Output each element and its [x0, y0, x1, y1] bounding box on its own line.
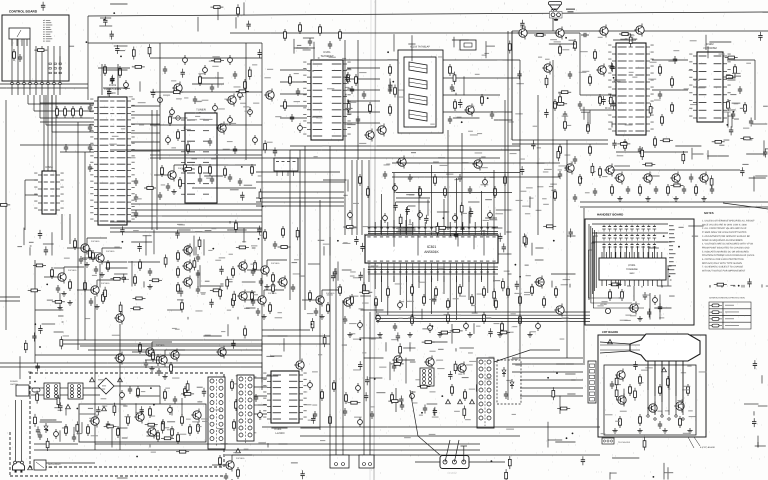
legend row line: [709, 321, 751, 323]
wire: [34, 260, 36, 363]
resistor: [460, 202, 463, 215]
resistor: [232, 299, 235, 305]
wire: [139, 81, 141, 91]
wire: [746, 153, 766, 155]
svg-text:2. ALL CAPACITANCE VALUES ARE: 2. ALL CAPACITANCE VALUES ARE IN UF: [702, 227, 747, 230]
wire: [415, 461, 440, 463]
wire to IC604: [55, 95, 57, 171]
ground: [101, 272, 103, 275]
resistor: [483, 315, 486, 321]
capacitor: [753, 360, 757, 369]
resistor: [343, 226, 356, 229]
wire: [5, 100, 7, 330]
resistor: [247, 407, 250, 413]
junction: [212, 248, 214, 250]
wire: [114, 273, 127, 275]
wire handset loop: [593, 236, 644, 308]
wire: [174, 164, 194, 166]
transistor: [672, 174, 680, 182]
wire: [508, 273, 512, 275]
wire: [110, 221, 262, 223]
value label: [493, 280, 500, 281]
capacitor: [610, 383, 614, 385]
resistor: [507, 289, 510, 295]
wire mesh: [396, 192, 512, 194]
capacitor: [140, 406, 144, 415]
transistor: [556, 29, 564, 37]
wire: [63, 267, 65, 271]
wire: [267, 259, 287, 261]
wire: [0, 366, 262, 368]
wire IC301 pin riser: [481, 191, 483, 214]
resistor: [311, 318, 314, 331]
resistor: [236, 90, 249, 93]
value label: [462, 377, 469, 378]
electrolytic capacitor: [393, 186, 398, 191]
wire: [393, 220, 395, 234]
HV rectifier dashed box: [497, 360, 521, 404]
wire: [136, 395, 160, 397]
resistor: [137, 389, 140, 395]
wire: [299, 150, 301, 360]
wire bus: [396, 197, 430, 199]
resistor: [481, 97, 484, 103]
capacitor: [612, 140, 616, 149]
wire: [709, 41, 731, 43]
resistor: [399, 343, 402, 356]
resistor: [282, 229, 285, 235]
value label: [119, 50, 125, 51]
speaker label: [566, 9, 575, 10]
wire: [293, 39, 295, 54]
capacitor: [343, 318, 347, 320]
wire: [616, 151, 688, 153]
capacitor: [731, 113, 735, 115]
CRT pin wire: [682, 361, 684, 415]
resistor: [149, 409, 152, 415]
junction: [663, 235, 665, 237]
junction: [120, 56, 122, 58]
IC601 microcontroller: [90, 97, 135, 225]
ground: [69, 300, 71, 303]
junction: [258, 238, 260, 240]
wire: [322, 289, 342, 291]
transistor: [91, 417, 99, 425]
wire: [757, 442, 759, 448]
capacitor: [259, 280, 263, 282]
resistor: [210, 6, 223, 9]
wire: [474, 222, 476, 230]
wire: [368, 214, 370, 230]
wire mesh: [110, 149, 520, 151]
resistor: [744, 105, 747, 111]
wire: [60, 343, 330, 345]
SAW filter stage: [409, 94, 427, 105]
capacitor: [273, 147, 277, 156]
junction: [613, 77, 615, 79]
wire: [153, 229, 155, 254]
resistor: [184, 389, 187, 395]
ground blob: [554, 19, 558, 21]
svg-text:REPLACE ONLY WITH TYPE SHOWN: REPLACE ONLY WITH TYPE SHOWN: [702, 262, 742, 265]
IC301 pin value labels: [368, 228, 370, 229]
value label: [205, 281, 210, 282]
wire elbow to IC601: [33, 95, 35, 111]
wire: [87, 237, 107, 239]
CRT pin wire: [675, 361, 677, 396]
wire: [424, 222, 426, 230]
wire: [437, 222, 439, 230]
capacitor: [647, 309, 651, 318]
wire: [408, 43, 415, 45]
junction: [581, 178, 583, 180]
capacitor: [581, 456, 585, 465]
wire: [98, 67, 130, 69]
transistor: [239, 292, 247, 300]
wire bus: [356, 160, 358, 235]
resistor: [278, 246, 291, 249]
wire: [763, 140, 765, 156]
resistor: [198, 237, 201, 250]
resistor: [659, 67, 662, 73]
wire: [601, 252, 603, 258]
resistor: [193, 258, 196, 271]
resistor: [64, 109, 67, 115]
junction: [153, 404, 155, 406]
junction: [136, 456, 138, 458]
transistor: [148, 428, 156, 436]
wire: [368, 273, 498, 275]
diode: [44, 426, 48, 429]
transistor: [159, 356, 167, 364]
capacitor: [405, 206, 409, 215]
wire: [319, 200, 321, 430]
wire matrix column: [609, 246, 611, 258]
wire: [101, 64, 103, 95]
wire: [347, 99, 349, 111]
ground: [349, 332, 351, 335]
ground: [639, 316, 641, 319]
resistor: [493, 288, 496, 301]
wire: [87, 16, 89, 100]
junction: [726, 124, 728, 126]
wire: [240, 404, 267, 406]
wire: [437, 268, 439, 281]
wire: [481, 268, 483, 280]
svg-text:HANDSET BOARD: HANDSET BOARD: [597, 213, 624, 217]
capacitor: [184, 126, 188, 128]
wire mesh: [537, 95, 539, 235]
transistor: [184, 278, 192, 286]
wire: [552, 18, 554, 31]
wire: [117, 477, 128, 479]
capacitor: [515, 281, 519, 290]
IC901 keypad encoder: [599, 258, 666, 280]
wire IC301 pin riser: [456, 178, 458, 214]
ground: [96, 304, 98, 307]
wire: [23, 39, 25, 82]
wire: [610, 252, 612, 258]
wire elbow to IC601: [39, 95, 41, 118]
wire: [417, 235, 419, 255]
wire matrix column: [603, 246, 605, 258]
resistor: [555, 289, 558, 295]
resistor: [671, 79, 674, 85]
resistor: [237, 4, 240, 17]
resistor: [552, 387, 555, 400]
wire to IC604: [43, 95, 45, 171]
wire: [387, 268, 389, 315]
wire: [410, 390, 440, 455]
capacitor: [296, 90, 300, 92]
warning triangle: [458, 399, 463, 403]
wire: [504, 100, 506, 235]
warning triangle: [102, 406, 107, 410]
wire: [743, 285, 745, 288]
resistor: [444, 189, 447, 195]
capacitor: [424, 215, 428, 224]
wire: [300, 427, 319, 429]
wire: [264, 289, 284, 291]
wire: [240, 377, 267, 379]
capacitor: [96, 406, 100, 415]
resistor: [189, 427, 192, 433]
wire: [35, 309, 63, 311]
electrolytic capacitor: [376, 316, 381, 321]
value label: [17, 246, 22, 247]
resistor: [36, 391, 39, 404]
transistor: [218, 124, 226, 132]
wire: [443, 77, 520, 79]
crystal X301: [460, 40, 476, 50]
value label: [266, 356, 274, 357]
wire: [232, 454, 252, 456]
resistor: [435, 289, 438, 295]
capacitor: [396, 332, 400, 341]
wire: [641, 286, 643, 288]
capacitor: [448, 118, 452, 120]
wire IC301 pin riser: [443, 199, 445, 214]
wire: [520, 395, 583, 397]
capacitor: [134, 212, 138, 214]
resistor: [148, 44, 151, 57]
wire: [431, 268, 433, 314]
wire bus: [376, 317, 590, 319]
wire: [88, 349, 262, 351]
resistor: [714, 283, 727, 286]
wire: [47, 85, 49, 95]
transistor: [474, 160, 482, 168]
junction: [443, 217, 445, 219]
wire: [758, 405, 768, 407]
wire: [406, 268, 408, 308]
capacitor: [432, 296, 436, 305]
resistor: [725, 56, 738, 59]
transistor: [91, 286, 99, 294]
capacitor: [520, 20, 524, 29]
capacitor: [157, 370, 161, 372]
wire: [609, 472, 611, 479]
wire: [656, 280, 658, 286]
transistor: [146, 348, 154, 356]
line filter L602: [68, 383, 83, 399]
wire: [535, 247, 543, 249]
wire bus: [376, 314, 590, 316]
wire: [456, 268, 458, 320]
svg-text:COIL: COIL: [48, 466, 52, 469]
antenna input: [176, 116, 180, 120]
value label: [487, 46, 495, 47]
wire: [329, 146, 331, 455]
wire: [452, 39, 469, 41]
resistor: [347, 100, 350, 113]
svg-text:TDM9606F: TDM9606F: [626, 268, 638, 271]
flyback transformer T402: [477, 358, 494, 428]
wire: [511, 31, 513, 140]
wire: [268, 335, 288, 337]
wire: [453, 117, 480, 119]
capacitor: [193, 98, 197, 100]
resistor: [299, 25, 302, 31]
wire bus: [256, 205, 344, 207]
remote sensor module: [9, 28, 30, 39]
transistor: [168, 171, 176, 179]
legend row line: [709, 308, 751, 310]
wire: [262, 426, 600, 428]
wire mesh: [256, 171, 340, 173]
wire: [589, 110, 591, 124]
svg-text:FROM POINT INDICATED TO CHASSI: FROM POINT INDICATED TO CHASSIS GND: [702, 246, 750, 249]
transistor: [649, 404, 657, 412]
wire: [583, 107, 585, 120]
wire: [648, 175, 659, 177]
wire: [58, 315, 63, 317]
resistor: [76, 421, 79, 434]
resistor: [367, 189, 370, 195]
wire: [29, 247, 31, 255]
value label: [406, 194, 414, 195]
wire: [473, 236, 475, 250]
wire: [40, 102, 94, 104]
capacitor: [490, 113, 494, 115]
junction: [678, 246, 680, 248]
wire: [507, 31, 509, 400]
CRT pin wire: [647, 361, 649, 415]
ground: [469, 332, 471, 335]
ground: [703, 196, 705, 199]
connector PB02: [588, 361, 596, 403]
transistor: [398, 158, 406, 166]
resistor: [177, 253, 180, 259]
handset board outline: [585, 219, 694, 325]
IC801: [608, 43, 654, 135]
svg-text:DEGAUSSING: DEGAUSSING: [48, 463, 61, 466]
value label: [490, 219, 497, 220]
wire bus: [512, 139, 608, 141]
capacitor: [196, 272, 200, 274]
wire: [302, 299, 314, 301]
resistor: [523, 233, 526, 246]
transistor: [426, 358, 434, 366]
wire: [455, 93, 457, 96]
value label: [342, 345, 347, 346]
svg-text:6. CRITICAL FOR X-RAY PROTECTI: 6. CRITICAL FOR X-RAY PROTECTION: [702, 258, 744, 261]
capacitor: [354, 236, 358, 245]
wire: [397, 227, 413, 229]
wire: [520, 379, 583, 381]
wire: [321, 290, 323, 294]
resistor: [264, 140, 267, 153]
value label: [734, 119, 739, 120]
wire: [271, 427, 287, 429]
ground: [689, 428, 691, 431]
wire: [506, 231, 511, 233]
wire: [329, 237, 331, 256]
wire: [318, 57, 320, 59]
capacitor: [626, 188, 630, 190]
IC802: [689, 52, 731, 122]
wire: [159, 43, 161, 160]
capacitor: [331, 272, 335, 281]
wire bus: [396, 201, 430, 203]
wire: [393, 276, 395, 282]
wire: [347, 179, 349, 191]
resistor: [345, 395, 348, 401]
ground: [639, 428, 641, 431]
value label: [732, 73, 740, 74]
junction: [733, 111, 735, 113]
resistor: [622, 33, 628, 36]
wire: [114, 385, 160, 387]
legend column line: [722, 302, 724, 329]
capacitor: [115, 45, 119, 54]
wire: [347, 122, 380, 124]
capacitor: [246, 21, 250, 30]
wire: [571, 379, 575, 381]
wire handset loop: [591, 243, 632, 303]
legend symbol: [712, 324, 719, 327]
wire: [150, 91, 262, 93]
resistor: [359, 291, 372, 294]
resistor: [649, 103, 652, 116]
power transformer T601: [208, 377, 225, 449]
diode: [246, 383, 250, 386]
wire: [53, 46, 55, 82]
capacitor: [88, 126, 92, 128]
capacitor: [308, 40, 312, 42]
wire mesh: [150, 157, 500, 159]
resistor: [447, 301, 450, 307]
electrolytic capacitor: [238, 93, 243, 98]
wire: [387, 222, 389, 230]
wire: [28, 371, 31, 373]
resistor: [519, 297, 522, 303]
wire: [663, 463, 665, 480]
wire: [380, 220, 382, 234]
wire: [481, 276, 483, 282]
resistor: [224, 169, 227, 175]
wire: [243, 228, 245, 242]
wire: [343, 59, 398, 61]
transistor: [174, 84, 182, 92]
capacitor: [454, 231, 458, 240]
junction: [515, 264, 517, 266]
wire: [83, 387, 100, 389]
resistor: [505, 469, 508, 480]
wire: [217, 7, 219, 20]
wire: [86, 238, 88, 242]
electrolytic capacitor: [228, 58, 233, 63]
